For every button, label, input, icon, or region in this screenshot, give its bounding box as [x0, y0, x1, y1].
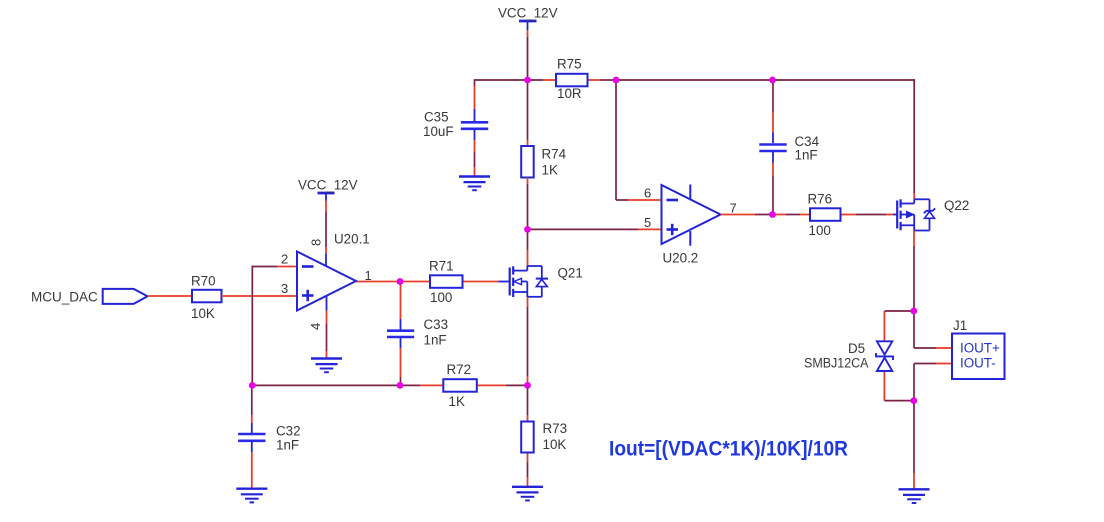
wire C35 branch [474, 79, 476, 176]
svg-text:Iout=[(VDAC*1K)/10K]/10R: Iout=[(VDAC*1K)/10K]/10R [609, 437, 848, 461]
svg-text:1nF: 1nF [424, 333, 447, 348]
svg-text:C32: C32 [276, 424, 301, 439]
svg-text:10K: 10K [543, 437, 567, 452]
power VCC_12V top [498, 6, 558, 22]
ground right [899, 489, 930, 503]
svg-text:U20.2: U20.2 [663, 251, 699, 266]
wire R73 branch [527, 385, 529, 486]
wire C32 branch [251, 385, 253, 488]
svg-text:VCC_12V: VCC_12V [498, 6, 558, 21]
ground C32 [236, 489, 267, 503]
wire D5 branch [884, 311, 914, 401]
wire top rail y=80 [475, 79, 916, 81]
svg-text:1K: 1K [542, 163, 558, 178]
wire pin5 net [528, 228, 662, 230]
wire U20.1 output net [356, 281, 499, 283]
svg-text:C35: C35 [424, 110, 449, 125]
svg-text:6: 6 [644, 186, 651, 201]
wire port to R70 [148, 295, 193, 297]
wire Q22 source [913, 231, 915, 312]
diode D5 TVS [804, 341, 893, 371]
wire R74 bottom [527, 178, 529, 230]
connector J1 [952, 318, 1005, 379]
svg-text:R73: R73 [543, 421, 568, 436]
wire pin6 feedback [616, 79, 662, 200]
resistor R74 [521, 146, 566, 178]
power VCC_12V left [298, 178, 358, 194]
svg-text:R74: R74 [542, 147, 567, 162]
op-amp U20.1 [297, 232, 370, 311]
svg-text:10K: 10K [191, 306, 215, 321]
wire to ground right [913, 401, 915, 490]
svg-text:4: 4 [308, 323, 323, 330]
transistor Q22 [893, 198, 969, 231]
svg-text:1nF: 1nF [276, 438, 299, 453]
svg-text:3: 3 [281, 281, 288, 296]
wire pin2 feedback [252, 266, 297, 386]
wire IOUT+ [914, 311, 952, 348]
wire C34 branch [772, 80, 774, 215]
svg-text:100: 100 [809, 223, 831, 238]
svg-text:Q21: Q21 [558, 266, 583, 281]
svg-text:8: 8 [308, 239, 323, 246]
svg-text:MCU_DAC: MCU_DAC [31, 290, 98, 305]
resistor R71 [429, 259, 463, 306]
svg-text:R71: R71 [429, 259, 454, 274]
resistor R73 [521, 421, 567, 453]
svg-text:U20.1: U20.1 [334, 232, 370, 247]
wire Q21 drain [527, 229, 529, 266]
svg-text:D5: D5 [848, 341, 865, 356]
wire pin4 [326, 296, 328, 359]
svg-text:5: 5 [644, 215, 651, 230]
svg-text:C33: C33 [424, 317, 449, 332]
wire Q22 drain [913, 79, 915, 199]
svg-text:10R: 10R [557, 86, 582, 101]
resistor R70 [191, 274, 222, 322]
capacitor C33 [387, 317, 448, 348]
capacitor C34 [759, 134, 819, 163]
svg-text:10uF: 10uF [423, 124, 454, 139]
svg-text:SMBJ12CA: SMBJ12CA [804, 356, 869, 371]
svg-text:J1: J1 [953, 318, 967, 333]
op-amp U20.2 [662, 185, 721, 266]
svg-text:7: 7 [730, 201, 737, 216]
svg-text:1K: 1K [449, 394, 465, 409]
svg-text:2: 2 [281, 252, 288, 267]
wire VCC stem top [527, 21, 529, 80]
capacitor C35 [423, 110, 488, 140]
resistor R75 [556, 57, 588, 102]
svg-text:R75: R75 [557, 57, 582, 72]
svg-text:R72: R72 [447, 362, 472, 377]
transistor Q21 [499, 266, 583, 298]
svg-text:100: 100 [430, 290, 452, 305]
capacitor C32 [238, 424, 300, 453]
wire Q21 source [527, 297, 529, 385]
wire bottom rail [252, 384, 527, 386]
wire C33 branch [400, 282, 402, 386]
wire R70 to pin3 [222, 295, 298, 297]
wire pin7 net [721, 214, 894, 216]
port MCU_DAC [31, 289, 148, 305]
svg-text:R70: R70 [191, 274, 216, 289]
ground R73 [512, 487, 543, 501]
svg-text:R76: R76 [808, 192, 833, 207]
ground C35 [459, 177, 490, 191]
ground U20.1 pin4 [311, 359, 342, 373]
resistor R72 [443, 362, 477, 409]
svg-text:1: 1 [365, 268, 372, 283]
wire pin8 [325, 193, 327, 266]
svg-text:1nF: 1nF [795, 148, 818, 163]
wire IOUT- [914, 364, 952, 401]
svg-text:IOUT-: IOUT- [960, 356, 996, 371]
wire R74 top [527, 80, 529, 146]
svg-text:Q22: Q22 [944, 198, 969, 213]
svg-text:IOUT+: IOUT+ [960, 341, 1000, 356]
resistor R76 [808, 192, 841, 239]
svg-text:VCC_12V: VCC_12V [298, 178, 358, 193]
